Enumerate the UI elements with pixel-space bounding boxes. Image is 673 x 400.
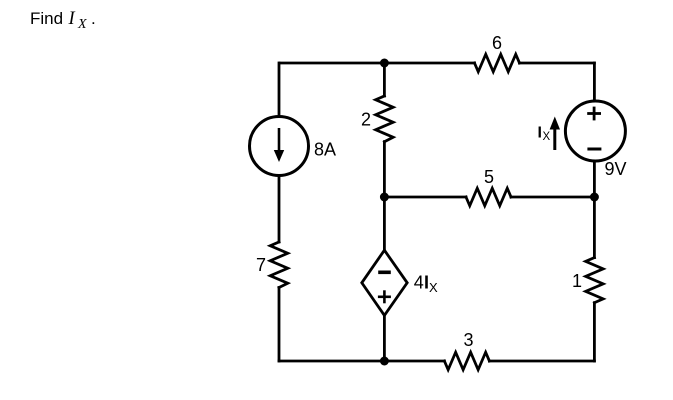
node dot top (junction of R2 and top wire) <box>380 59 389 68</box>
svg-text:I: I <box>68 9 76 29</box>
svg-text:X: X <box>429 280 438 295</box>
node dot right (junction of R5, source, R1) <box>590 193 599 202</box>
resistor R1 zigzag <box>586 258 604 303</box>
svg-text:.: . <box>91 9 96 28</box>
voltage source minus sign <box>587 148 601 151</box>
svg-text:3: 3 <box>464 330 474 350</box>
title text "Find Ix ." <box>30 9 96 32</box>
label Ix (arrow label) <box>538 124 551 143</box>
wire middle horizontal right (R5 to right node) <box>511 196 594 199</box>
svg-text:X: X <box>543 131 551 143</box>
voltage source plus sign <box>587 107 601 121</box>
wire left vertical lower (R7 to bottom corner) <box>278 288 281 362</box>
wire middle horizontal left (middle node to R5) <box>384 196 466 199</box>
resistor R2 zigzag <box>376 96 394 142</box>
resistor R5 zigzag <box>466 188 511 206</box>
node dot bottom (junction of diamond and bottom wire) <box>380 357 389 366</box>
svg-text:4: 4 <box>414 273 424 293</box>
wire middle vertical (R2 to middle node to diamond top) <box>383 142 386 251</box>
wire middle vertical upper (top node to R2) <box>383 63 386 96</box>
wire top-left horizontal (top node to R6) <box>280 62 475 65</box>
svg-text:Find: Find <box>30 9 63 28</box>
wire left vertical middle (current source to R7) <box>278 176 281 243</box>
wire middle vertical lower (diamond bottom to bottom node) <box>383 315 386 361</box>
dependent source minus sign (top) <box>378 270 391 274</box>
current source I1 arrow (downward) <box>274 128 284 162</box>
svg-text:5: 5 <box>484 167 494 187</box>
Ix current arrow (upward, beside voltage source) <box>550 117 560 151</box>
label 4Ix <box>414 273 438 295</box>
voltage source V1 circle (9V) <box>565 101 625 161</box>
dependent source plus sign (bottom) <box>378 290 391 303</box>
svg-text:6: 6 <box>492 33 502 53</box>
resistor R7 zigzag <box>270 242 288 288</box>
wire right vertical lower (R1 to bottom corner) <box>593 303 596 361</box>
wire top-right horizontal (R6 to right corner) <box>520 62 595 65</box>
wire left vertical upper (corner to current source) <box>278 63 281 117</box>
svg-text:1: 1 <box>572 271 582 291</box>
current source I1 circle (8A) <box>250 117 309 176</box>
svg-text:2: 2 <box>361 110 371 130</box>
wire right vertical upper (top corner to voltage source) <box>593 63 596 101</box>
wire bottom-left horizontal (left corner to R3) <box>279 360 444 363</box>
svg-text:7: 7 <box>256 255 266 275</box>
resistor R6 zigzag <box>475 54 520 72</box>
resistor R3 zigzag <box>444 352 489 370</box>
node dot middle (junction of R2, R5, diamond) <box>380 193 389 202</box>
svg-text:8A: 8A <box>314 140 336 160</box>
svg-text:X: X <box>77 17 87 32</box>
wire bottom-right horizontal (R3 to right corner) <box>489 360 594 363</box>
dependent source diamond (4Ix) <box>362 250 407 315</box>
wire right vertical middle (voltage source to R1, through node) <box>593 161 596 258</box>
svg-text:9V: 9V <box>605 159 627 179</box>
svg-text:I: I <box>538 124 542 141</box>
